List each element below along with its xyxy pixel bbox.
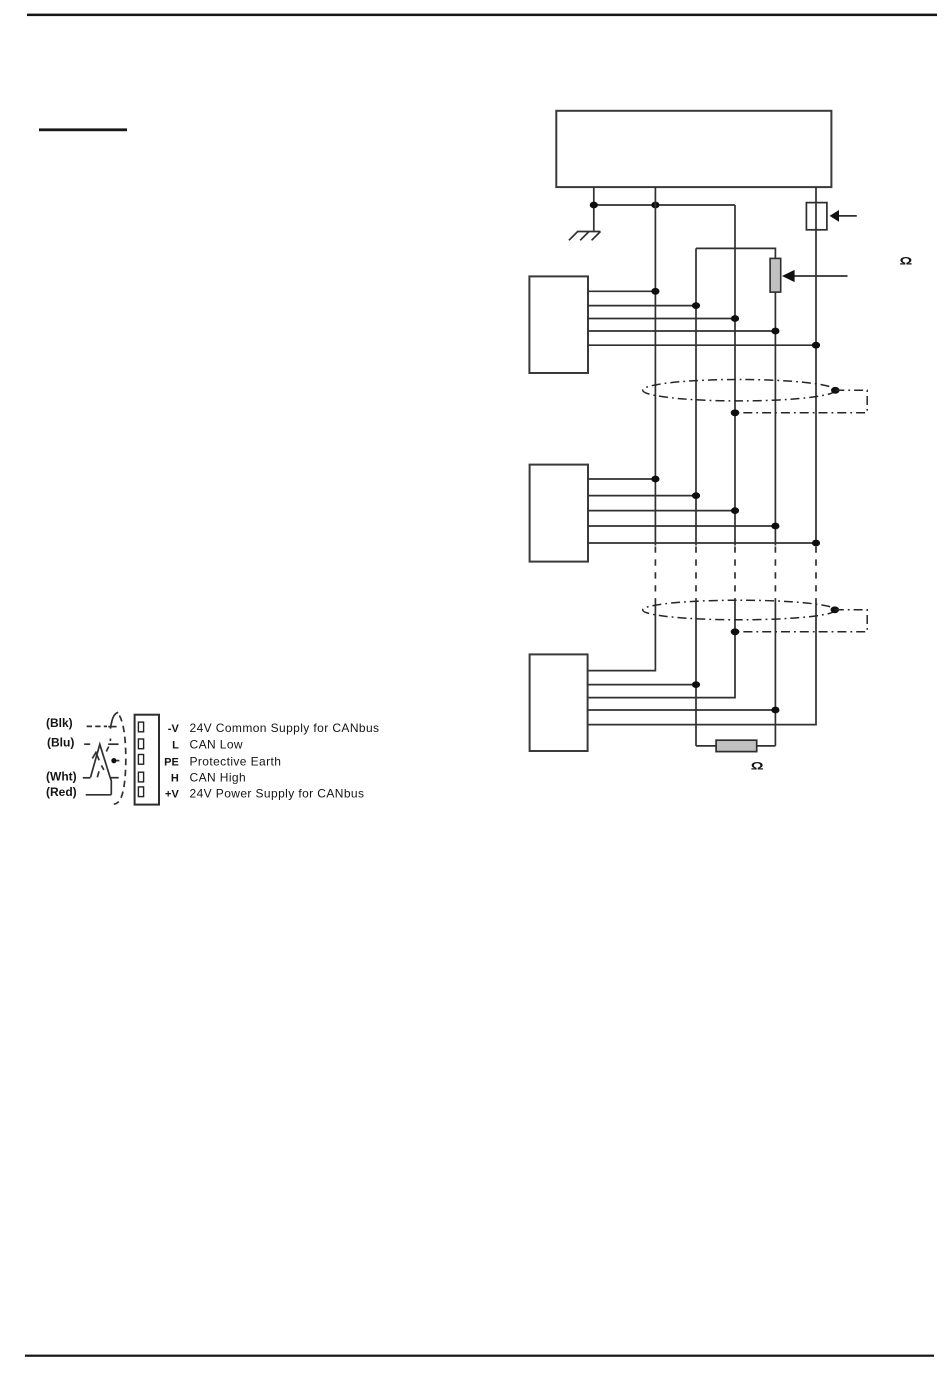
svg-text:(Blu): (Blu) bbox=[47, 735, 74, 749]
wire: supply ground lead bbox=[593, 187, 595, 231]
shield 2 junction dot on drain bus bbox=[731, 628, 740, 635]
svg-text:Ω: Ω bbox=[751, 760, 764, 772]
junction dot node2 +V bbox=[812, 540, 820, 547]
junction dot node2 shield bbox=[731, 507, 739, 514]
svg-text:(Blk): (Blk) bbox=[46, 716, 73, 730]
wire: +V bus vertical upper bbox=[815, 230, 817, 546]
junction dot node1 shield bbox=[731, 315, 739, 322]
shield 1 junction dot on drain bus bbox=[731, 409, 740, 416]
cable shield ellipse 1 bbox=[643, 380, 836, 401]
wire: -V bus vertical upper bbox=[654, 187, 656, 546]
junction dot node1 CAN-L bbox=[692, 302, 700, 309]
terminal screw H bbox=[138, 772, 143, 782]
shield 1 pigtail bbox=[735, 390, 867, 412]
cable junction dot bbox=[111, 758, 119, 763]
svg-text:Ω: Ω bbox=[900, 255, 913, 267]
junction dot node1 -V bbox=[651, 288, 659, 295]
terminal block bbox=[135, 715, 159, 805]
svg-text:24V Common Supply for CANbus: 24V Common Supply for CANbus bbox=[190, 721, 380, 735]
svg-text:-V: -V bbox=[168, 723, 180, 735]
termination resistor R1 bbox=[770, 258, 781, 292]
wire: +V bus vertical lower bbox=[588, 601, 816, 725]
svg-text:CAN Low: CAN Low bbox=[190, 738, 243, 752]
wire: CAN-H bus vertical upper bbox=[774, 292, 776, 545]
junction dot node1 +V bbox=[812, 342, 820, 349]
svg-text:(Wht): (Wht) bbox=[46, 770, 77, 784]
fuse F1 bbox=[806, 203, 827, 230]
wire: R2 left lead bbox=[696, 745, 716, 747]
terminal screw PE bbox=[138, 755, 143, 765]
wire: +V bus dashed cable section bbox=[815, 547, 817, 602]
wire: CAN-H bus vertical lower bbox=[774, 601, 776, 746]
svg-text:H: H bbox=[171, 773, 179, 785]
junction dot: -V bus at ground bus bbox=[651, 202, 659, 209]
wire: shield drain bus dashed cable section bbox=[734, 547, 736, 602]
wire: R2 right lead bbox=[757, 745, 776, 747]
node box 2 bbox=[530, 465, 588, 562]
wire: ground bus horizontal bbox=[594, 204, 735, 206]
wire: node3 CAN-L bbox=[588, 684, 696, 686]
wire: node2 +V bbox=[588, 542, 816, 544]
wire: node2 CAN-L bbox=[588, 495, 696, 497]
black wire hook bbox=[108, 712, 118, 728]
wire: node1 +V bbox=[588, 344, 816, 346]
twisted pair strokes bbox=[91, 739, 119, 795]
shield 1 drain dot bbox=[831, 387, 840, 394]
arrow pointing to fuse F1 bbox=[830, 210, 857, 222]
wire: CAN-L bus vertical lower bbox=[695, 601, 697, 746]
wire: -V bus vertical lower bbox=[588, 601, 656, 671]
wire: +V lead from supply bbox=[815, 187, 817, 203]
junction dot node1 CAN-H bbox=[771, 328, 779, 335]
junction dot node2 -V bbox=[651, 476, 659, 483]
power supply box bbox=[556, 111, 831, 187]
svg-text:L: L bbox=[172, 740, 179, 752]
ground symbol bbox=[569, 232, 601, 241]
white wire right segment bbox=[110, 777, 118, 779]
cable shield arc bbox=[114, 716, 126, 805]
wire: R1 jumper CAN-L to resistor top bbox=[696, 248, 775, 258]
shield 2 drain dot bbox=[831, 606, 840, 613]
svg-text:24V Power Supply for CANbus: 24V Power Supply for CANbus bbox=[190, 787, 365, 801]
wire: node2 CAN-H bbox=[588, 525, 775, 527]
white wire lead bbox=[83, 777, 91, 779]
termination resistor R2 bbox=[716, 740, 757, 751]
junction dot node3 CAN-L bbox=[692, 681, 700, 688]
blue wire stub bbox=[84, 743, 90, 745]
svg-text:+V: +V bbox=[165, 789, 179, 801]
junction dot node2 CAN-H bbox=[771, 523, 779, 530]
junction dot: ground lead bbox=[590, 202, 598, 209]
junction dot node2 CAN-L bbox=[692, 492, 700, 499]
wire: node2 shield bbox=[588, 510, 735, 512]
terminal screw +V bbox=[138, 787, 143, 797]
wire: node3 CAN-H bbox=[588, 709, 776, 711]
wire: CAN-L bus dashed cable section bbox=[695, 547, 697, 602]
terminal screw L bbox=[138, 739, 143, 749]
wire: -V bus dashed cable section bbox=[654, 547, 656, 602]
wire: shield drain bus vertical lower bbox=[588, 601, 735, 698]
shield 2 pigtail bbox=[735, 610, 867, 632]
node box 3 bbox=[530, 654, 588, 751]
svg-text:CAN High: CAN High bbox=[190, 771, 247, 785]
wire: node1 CAN-L bbox=[588, 305, 696, 307]
wire: shield drain bus vertical upper bbox=[734, 205, 736, 546]
wire: node1 -V bbox=[588, 290, 655, 292]
wire: node1 shield bbox=[588, 318, 735, 320]
svg-text:Protective Earth: Protective Earth bbox=[190, 754, 282, 768]
node box 1 bbox=[529, 276, 588, 373]
wire: node2 -V bbox=[588, 478, 655, 480]
svg-text:(Red): (Red) bbox=[46, 785, 77, 799]
terminal screw -V bbox=[138, 722, 143, 732]
wire: CAN-L bus vertical upper bbox=[695, 248, 697, 545]
wire: node1 CAN-H bbox=[588, 330, 775, 332]
cable shield ellipse 2 bbox=[643, 600, 836, 620]
svg-text:PE: PE bbox=[164, 756, 179, 768]
junction dot node3 CAN-H bbox=[771, 707, 779, 714]
arrow pointing to resistor R1 bbox=[782, 270, 848, 282]
black wire dashed bbox=[87, 725, 107, 727]
red wire bbox=[86, 794, 112, 796]
wire: CAN-H bus dashed cable section bbox=[774, 547, 776, 602]
